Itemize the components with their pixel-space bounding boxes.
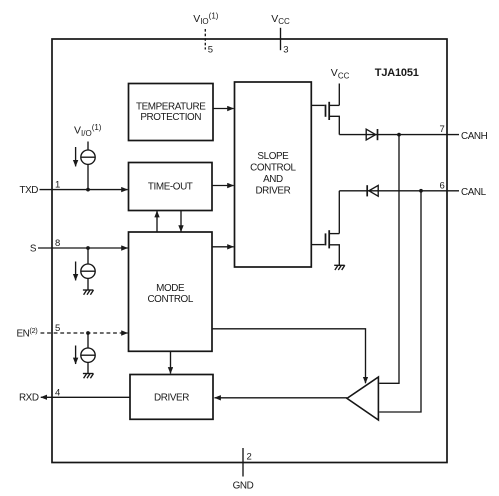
- svg-text:CONTROL: CONTROL: [147, 294, 193, 305]
- op-amp RX (receiver comparator): [347, 377, 378, 420]
- wire RXD output: [41, 396, 130, 398]
- pin 2 GND tick: [242, 448, 244, 477]
- wire MODE CONTROL to receiver enable: [212, 329, 366, 383]
- node S junction: [86, 246, 90, 250]
- node CANH junction: [397, 133, 401, 137]
- svg-text:S: S: [30, 243, 37, 254]
- svg-text:5: 5: [208, 44, 213, 55]
- wire MODE CONTROL to SLOPE: [212, 246, 234, 248]
- svg-text:6: 6: [440, 180, 445, 191]
- svg-text:TXD: TXD: [19, 185, 38, 196]
- svg-text:VI/O(1): VI/O(1): [74, 123, 102, 138]
- current source I3 (EN pull-down): [76, 333, 96, 374]
- wire TEMPERATURE PROTECTION to SLOPE: [213, 108, 234, 110]
- wire CANH to receiver input: [379, 135, 399, 384]
- wire MODE CONTROL to TIME-OUT (up arrow): [156, 211, 158, 232]
- wire CANL to receiver input: [379, 191, 421, 412]
- svg-text:TJA1051: TJA1051: [375, 67, 419, 79]
- wire TIME-OUT to MODE CONTROL (down arrow): [180, 211, 182, 232]
- wire S input: [38, 247, 128, 249]
- svg-text:VCC: VCC: [331, 67, 350, 80]
- wire Q2 drain to CANL: [338, 191, 340, 234]
- svg-text:8: 8: [55, 238, 60, 249]
- ground (Q2 source): [334, 265, 345, 270]
- svg-text:CANL: CANL: [461, 187, 487, 198]
- svg-text:SLOPE: SLOPE: [257, 151, 289, 162]
- box TEMPERATURE PROTECTION: [129, 84, 214, 141]
- wire MODE CONTROL to DRIVER: [170, 351, 172, 373]
- svg-text:5: 5: [55, 323, 60, 334]
- svg-text:EN(2): EN(2): [17, 326, 39, 340]
- svg-text:DRIVER: DRIVER: [154, 393, 189, 404]
- svg-text:CONTROL: CONTROL: [250, 163, 296, 174]
- transistor Q1 (high-side MOSFET): [311, 102, 339, 135]
- svg-text:TIME-OUT: TIME-OUT: [148, 182, 193, 193]
- svg-text:PROTECTION: PROTECTION: [140, 112, 201, 123]
- svg-text:AND: AND: [263, 174, 283, 185]
- svg-text:3: 3: [283, 44, 288, 55]
- box MODE CONTROL: [129, 232, 213, 351]
- svg-text:MODE: MODE: [156, 283, 185, 294]
- node TXD junction: [86, 188, 90, 192]
- svg-text:4: 4: [55, 387, 60, 398]
- svg-text:7: 7: [440, 124, 445, 135]
- wire VCC stub to Q1 drain: [338, 84, 340, 106]
- pin 3 VCC tick: [280, 28, 282, 50]
- wire receiver output to DRIVER: [215, 397, 348, 399]
- svg-text:GND: GND: [233, 481, 254, 492]
- ground (S current source): [83, 290, 94, 295]
- svg-text:RXD: RXD: [19, 393, 39, 404]
- svg-text:VIO(1): VIO(1): [193, 11, 219, 26]
- diode D2 (from CANL): [367, 185, 378, 196]
- svg-text:2: 2: [247, 452, 252, 463]
- node EN junction: [86, 331, 90, 335]
- IC boundary: [52, 39, 447, 463]
- svg-text:TEMPERATURE: TEMPERATURE: [136, 102, 206, 113]
- pin 5 VIO tick (dashed): [204, 29, 206, 50]
- wire CANL rail: [339, 190, 459, 192]
- node CANL junction: [419, 189, 423, 193]
- wire CANH rail: [339, 134, 459, 136]
- box TIME-OUT: [129, 163, 213, 211]
- svg-text:CANH: CANH: [461, 131, 488, 142]
- wire EN input (dashed): [41, 332, 128, 334]
- box SLOPE CONTROL AND DRIVER: [235, 82, 312, 267]
- box DRIVER: [130, 375, 213, 420]
- current source I1 (TXD pull-up): [76, 142, 96, 190]
- wire TXD input: [40, 189, 128, 191]
- svg-text:VCC: VCC: [271, 13, 290, 26]
- current source I2 (S pull-down): [76, 248, 96, 290]
- svg-text:DRIVER: DRIVER: [255, 186, 290, 197]
- ground (EN current source): [83, 374, 94, 379]
- wire TIME-OUT to SLOPE: [212, 185, 234, 187]
- transistor Q2 (low-side MOSFET): [311, 230, 339, 265]
- svg-text:1: 1: [55, 180, 60, 191]
- diode D1 (to CANH): [366, 129, 377, 140]
